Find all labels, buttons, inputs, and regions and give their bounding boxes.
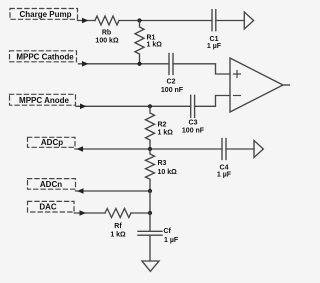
svg-text:ADCn: ADCn xyxy=(40,180,62,189)
port box ADCp xyxy=(28,137,76,147)
wire Cf to ground xyxy=(149,235,151,261)
svg-text:100 nF: 100 nF xyxy=(182,128,205,135)
wire Rb to C1 xyxy=(119,20,212,22)
svg-text:1 µF: 1 µF xyxy=(164,237,179,244)
wire bus DAC node to Cf xyxy=(149,213,151,231)
svg-text:R1: R1 xyxy=(147,35,156,42)
port box DAC xyxy=(28,201,75,212)
svg-text:Cf: Cf xyxy=(164,228,172,235)
resistor R2 xyxy=(146,106,155,149)
svg-text:C2: C2 xyxy=(167,79,176,86)
arrow on DAC wire xyxy=(80,210,87,216)
capacitor C2 xyxy=(169,54,173,75)
junction node R2/MPPC Anode xyxy=(148,104,152,108)
wire MPPC Cathode to C2 xyxy=(79,63,170,65)
svg-text:DAC: DAC xyxy=(39,203,57,212)
wire C3 to op-amp inverting input xyxy=(195,96,230,107)
capacitor C1 xyxy=(212,10,216,31)
svg-text:1 kΩ: 1 kΩ xyxy=(110,232,126,239)
junction node R2/R3/ADCp xyxy=(148,147,152,151)
wire C1 to output port xyxy=(216,20,245,22)
wire C4 to output port xyxy=(226,148,254,150)
wire Rf to bus xyxy=(131,212,150,214)
wire op-amp output xyxy=(283,84,290,86)
svg-text:MPPC Anode: MPPC Anode xyxy=(19,96,69,105)
svg-text:R2: R2 xyxy=(158,122,167,129)
svg-text:R3: R3 xyxy=(158,160,167,167)
capacitor C4 xyxy=(222,139,226,160)
junction node Rb/R1 xyxy=(137,18,141,22)
svg-text:ADCp: ADCp xyxy=(41,138,63,147)
wire ADCp to C4 xyxy=(75,148,222,150)
port box MPPC Anode xyxy=(10,94,76,105)
svg-text:C3: C3 xyxy=(189,120,198,127)
arrow on Charge Pump wire xyxy=(82,18,89,24)
svg-text:1 µF: 1 µF xyxy=(217,172,232,179)
wire C2 to op-amp noninverting input xyxy=(173,64,230,74)
svg-text:MPPC Cathode: MPPC Cathode xyxy=(16,52,74,61)
junction node R3/ADCn xyxy=(148,189,152,193)
wire MPPC Anode to C3 xyxy=(76,105,191,107)
ground xyxy=(142,261,159,271)
resistor R3 xyxy=(146,149,155,191)
wire ADCn to bus xyxy=(76,190,151,192)
svg-text:Charge Pump: Charge Pump xyxy=(19,10,71,19)
svg-text:100 nF: 100 nF xyxy=(161,87,184,94)
arrow on MPPC Anode wire xyxy=(80,104,87,110)
op-amp U1 xyxy=(230,58,283,112)
svg-text:1 kΩ: 1 kΩ xyxy=(147,42,163,49)
output port triangle (row 4) xyxy=(254,141,263,158)
capacitor C3 xyxy=(191,95,195,117)
wire bus ADCn to DAC node xyxy=(149,191,151,213)
svg-text:Rf: Rf xyxy=(114,223,122,230)
resistor Rf xyxy=(105,209,131,218)
op-amp minus pin marker xyxy=(234,95,241,97)
resistor Rb xyxy=(95,16,119,25)
svg-text:1 µF: 1 µF xyxy=(207,43,222,50)
svg-text:Rb: Rb xyxy=(102,30,111,37)
wire Charge Pump to Rb xyxy=(78,20,96,22)
capacitor Cf xyxy=(138,231,162,235)
port box Charge Pump xyxy=(10,9,78,20)
svg-text:10 kΩ: 10 kΩ xyxy=(158,169,178,176)
svg-text:C1: C1 xyxy=(210,36,219,43)
port box MPPC Cathode xyxy=(10,51,77,62)
svg-text:C4: C4 xyxy=(220,165,229,172)
svg-text:100 kΩ: 100 kΩ xyxy=(95,38,119,45)
junction node R1/MPPC Cathode xyxy=(137,62,141,66)
resistor R1 xyxy=(135,21,144,64)
wire DAC to Rf xyxy=(74,212,105,214)
op-amp plus pin marker xyxy=(234,71,241,78)
port box ADCn xyxy=(28,179,76,190)
arrow into ADCn (pointing left) xyxy=(77,188,84,194)
arrow into ADCp (pointing left) xyxy=(77,146,84,152)
svg-text:1 kΩ: 1 kΩ xyxy=(158,129,174,136)
arrow on MPPC Cathode wire xyxy=(82,61,89,67)
junction node Rf/Cf xyxy=(148,211,152,215)
output port triangle (row 1) xyxy=(244,12,253,29)
